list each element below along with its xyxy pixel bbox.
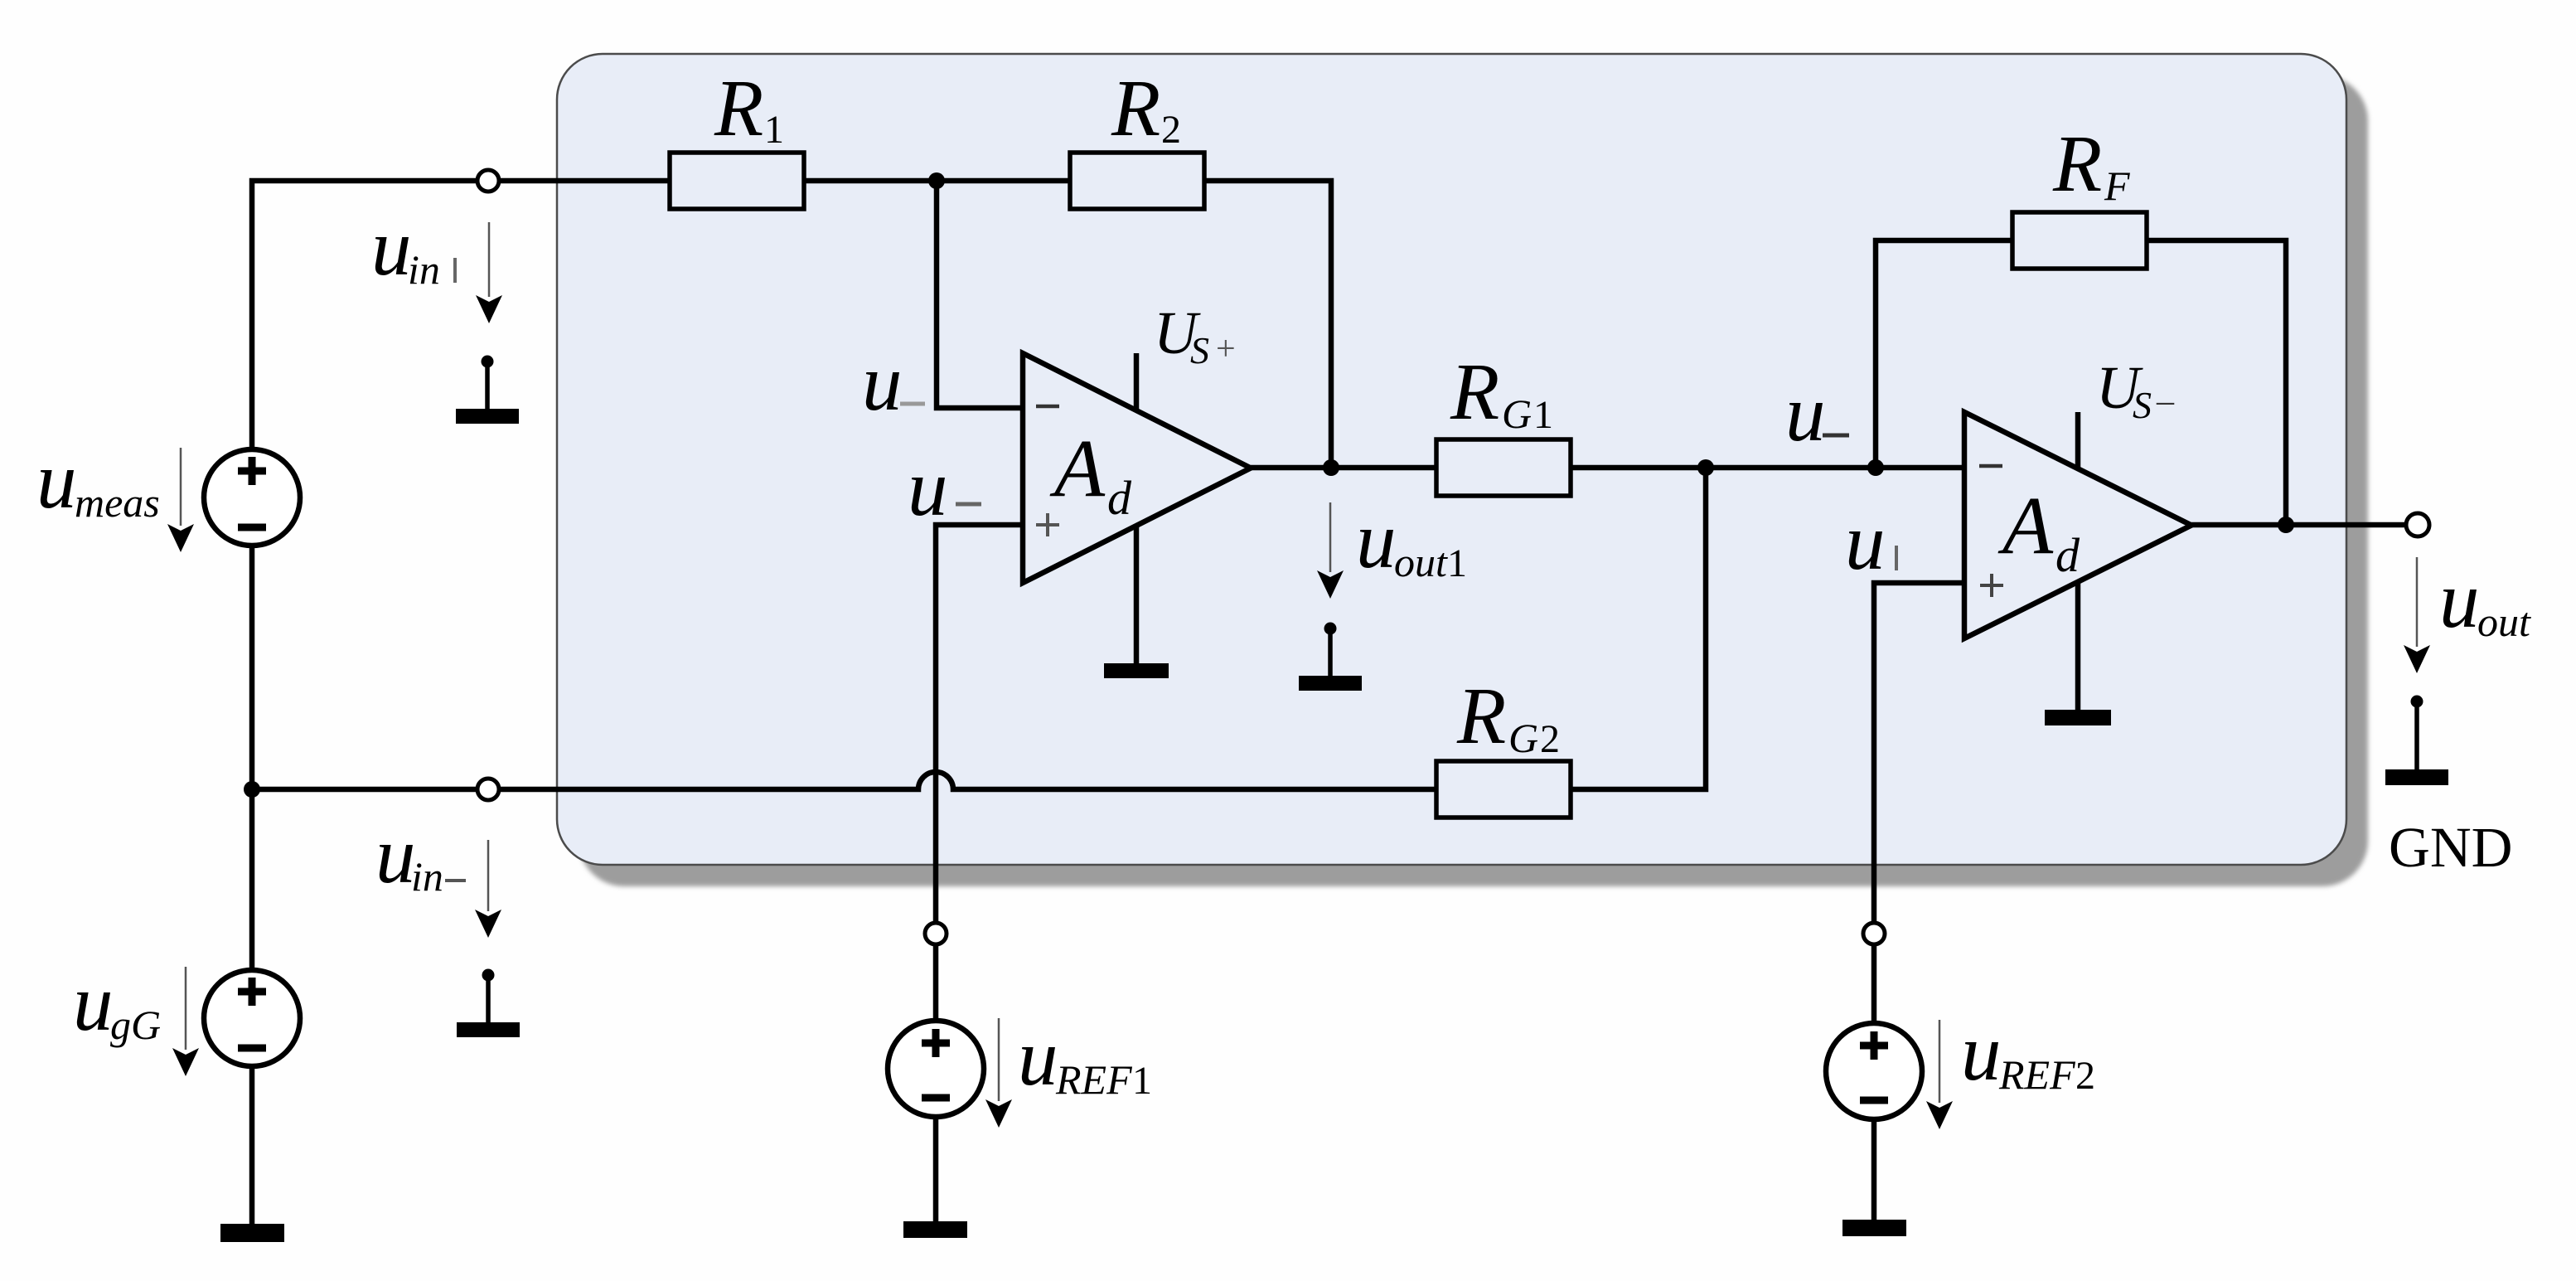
- wire U1 non-inverting input down to u_REF1 terminal: [936, 525, 1021, 923]
- svg-text:S: S: [2133, 384, 2152, 426]
- label u- U1 inverting: [862, 338, 925, 427]
- arrow u_REF1: [985, 1018, 1012, 1128]
- junction node U2 inverting: [1867, 459, 1884, 476]
- floating ground u_in-: [457, 969, 520, 1038]
- svg-text:u: u: [73, 958, 114, 1047]
- wire U2 non-inverting input down: [1874, 583, 1964, 923]
- label u- U2 inverting: [1785, 369, 1849, 458]
- terminal u_REF2: [1863, 923, 1885, 944]
- svg-text:out: out: [1394, 539, 1448, 585]
- voltage source u_REF2: [1826, 1023, 1922, 1119]
- label u- U1 non-inverting: [908, 444, 981, 532]
- ground at u_REF2: [1842, 1220, 1906, 1236]
- wire R_F right down to U2 output: [2147, 240, 2286, 525]
- svg-text:+: +: [1216, 330, 1236, 368]
- arrow u_in+: [476, 222, 502, 323]
- svg-text:meas: meas: [75, 479, 160, 526]
- arrow u_out1: [1317, 502, 1344, 599]
- voltage source u_gG: [204, 970, 300, 1066]
- terminal u_out: [2406, 513, 2429, 536]
- ground under U1 supply: [1104, 663, 1169, 678]
- voltage source u_meas: [204, 449, 300, 546]
- svg-text:u: u: [908, 444, 948, 532]
- floating ground u_in+: [456, 356, 519, 425]
- wire R2 to U1 output node: [1203, 181, 1331, 468]
- svg-text:u: u: [36, 436, 77, 525]
- wire U2 positive supply stub: [2075, 412, 2081, 470]
- wire R_G1 to op-amp U2 inverting input: [1571, 465, 1964, 471]
- arrow u_gG: [172, 967, 199, 1076]
- wire u_REF2 source to ground: [1871, 1119, 1877, 1220]
- label u_REF1: [1018, 1013, 1152, 1103]
- wire U2 output to terminal: [2191, 522, 2407, 528]
- svg-text:A: A: [1049, 422, 1106, 514]
- wire feedback node up to R_F: [1876, 240, 2012, 468]
- wire R1 to R2: [804, 178, 1070, 184]
- label u_in+: [371, 203, 455, 293]
- svg-text:u: u: [1018, 1013, 1058, 1102]
- IC box shadow: [579, 75, 2368, 886]
- junction node A (R1-R2): [928, 172, 945, 189]
- svg-text:GND: GND: [2389, 816, 2513, 879]
- wire terminal to u_REF1 source: [933, 944, 939, 1021]
- svg-text:1: 1: [764, 108, 784, 152]
- wire terminal to u_REF2 source: [1871, 944, 1877, 1023]
- svg-text:u: u: [862, 338, 903, 427]
- IC box (instrumentation amplifier): [557, 54, 2346, 865]
- svg-text:gG: gG: [110, 1002, 161, 1048]
- svg-text:u: u: [375, 811, 416, 900]
- svg-text:G: G: [1508, 715, 1538, 761]
- voltage source u_REF1: [888, 1021, 984, 1117]
- resistor RF: [2012, 119, 2147, 269]
- wire U1 negative supply stub to ground: [1134, 526, 1140, 665]
- op-amp U2: [1964, 412, 2191, 638]
- label u_in-: [375, 811, 466, 900]
- junction node RG1-RG2: [1697, 459, 1714, 476]
- wire lower input u_in- with hop over vertical wire: [252, 772, 1436, 789]
- svg-text:1: 1: [1132, 1059, 1152, 1103]
- svg-text:d: d: [1107, 471, 1132, 525]
- wire node A down to op-amp U1 inverting input: [937, 181, 1023, 408]
- svg-text:u: u: [371, 203, 412, 292]
- junction node U1 output: [1323, 459, 1339, 476]
- wire R_G2 right to node B: [1571, 468, 1706, 789]
- svg-text:1: 1: [1533, 393, 1553, 437]
- svg-text:d: d: [2055, 528, 2080, 582]
- wire u_REF1 source to ground: [933, 1117, 939, 1221]
- svg-text:R: R: [1450, 347, 1499, 436]
- op-amp U1: [1023, 353, 1251, 583]
- label US+ supply U1: [1154, 299, 1236, 371]
- ground at u_REF1: [903, 1221, 967, 1238]
- svg-text:u: u: [1845, 497, 1886, 586]
- svg-text:2: 2: [1540, 717, 1560, 761]
- floating ground u_out1: [1299, 623, 1362, 691]
- svg-text:REF: REF: [1055, 1056, 1132, 1103]
- svg-text:R: R: [1456, 672, 1506, 760]
- wire u_meas to u_gG: [249, 546, 255, 970]
- arrow u_out: [2404, 557, 2430, 673]
- junction node left column: [244, 781, 260, 798]
- svg-text:2: 2: [2075, 1054, 2095, 1098]
- wire top input u_in+ to R1: [252, 181, 670, 449]
- svg-text:A: A: [1997, 479, 2054, 571]
- svg-text:u: u: [1356, 496, 1397, 585]
- floating ground u_out / GND: [2385, 696, 2448, 786]
- svg-text:S: S: [1190, 329, 1209, 371]
- resistor RG1: [1436, 347, 1571, 496]
- svg-text:in: in: [408, 246, 440, 293]
- svg-text:1: 1: [1447, 541, 1467, 585]
- label u_out1: [1356, 496, 1467, 585]
- label u+ U2 non-inverting: [1845, 497, 1896, 586]
- arrow u_meas: [167, 448, 194, 552]
- ground under U2 supply: [2045, 710, 2111, 725]
- label u_gG: [73, 958, 161, 1048]
- svg-text:u: u: [1961, 1008, 2002, 1097]
- wire U1 output to R_G1: [1251, 465, 1436, 471]
- svg-text:F: F: [2104, 163, 2130, 209]
- arrow u_in-: [475, 840, 501, 938]
- svg-text:R: R: [714, 64, 763, 153]
- wire U1 positive supply stub: [1134, 353, 1140, 411]
- svg-text:2: 2: [1161, 108, 1181, 152]
- svg-text:out: out: [2477, 599, 2531, 645]
- label u_meas: [36, 436, 160, 526]
- svg-text:u: u: [2439, 556, 2480, 644]
- svg-text:–: –: [2156, 382, 2175, 420]
- svg-text:G: G: [1502, 391, 1532, 437]
- terminal u_in+: [477, 170, 499, 192]
- label u_out: [2439, 556, 2531, 645]
- ground at u_gG: [220, 1224, 284, 1242]
- resistor R2: [1070, 64, 1204, 209]
- svg-text:in: in: [411, 853, 443, 900]
- label GND: [2389, 816, 2513, 879]
- resistor RG2: [1436, 672, 1571, 818]
- label u_REF2: [1961, 1008, 2095, 1098]
- svg-text:R: R: [2052, 119, 2102, 208]
- svg-text:u: u: [1785, 369, 1826, 458]
- arrow u_REF2: [1926, 1020, 1953, 1129]
- svg-text:R: R: [1111, 64, 1160, 153]
- terminal u_in-: [477, 779, 499, 800]
- wire u_gG to ground: [249, 1066, 255, 1224]
- terminal u_REF1: [925, 923, 947, 944]
- wire U2 negative supply stub to ground: [2075, 581, 2081, 711]
- svg-text:REF: REF: [1998, 1051, 2075, 1098]
- label US- supply U2: [2096, 354, 2175, 426]
- resistor R1: [670, 64, 804, 209]
- junction node U2 output: [2278, 517, 2294, 533]
